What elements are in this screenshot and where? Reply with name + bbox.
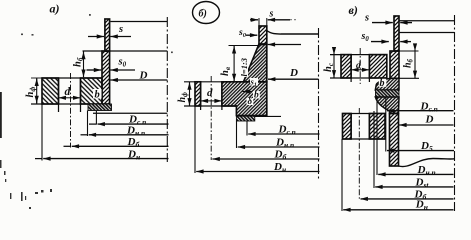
dimension D_5 (fig в)	[387, 150, 454, 152]
loose flange ring lower right part (fig в)	[369, 114, 385, 140]
dimension D_н.п (fig б)	[238, 146, 320, 148]
dimension h_с vertical (fig в)	[333, 55, 335, 78]
tapered hub cone (fig б)	[244, 44, 267, 82]
sealing face edge line (fig б)	[255, 115, 281, 117]
gasket sealing face serrated (fig б)	[236, 116, 254, 121]
dimension D_н (fig в)	[343, 209, 453, 211]
pipe wall thick section (fig в)	[390, 51, 399, 78]
dimension D_с.п (fig б)	[248, 133, 319, 135]
bolt hole d dimension line (fig в)	[351, 69, 354, 71]
bolt hole d dimension line (fig б)	[201, 100, 203, 102]
upper ring top edge (fig в)	[330, 54, 387, 56]
loose flange ring lower left part (fig в)	[343, 114, 352, 140]
svg-text:b: b	[254, 91, 259, 101]
pipe wall upper thin section s (fig a)	[105, 19, 110, 51]
dimension h_ф vertical (fig a)	[36, 78, 38, 103]
dimension D_б (fig в)	[361, 198, 454, 200]
svg-text:d: d	[207, 87, 213, 99]
extension line gasket outer (fig в)	[376, 97, 378, 175]
svg-text:b: b	[95, 90, 100, 101]
axis centerline (fig в)	[454, 15, 456, 211]
dimension D_н.п (fig в)	[378, 173, 453, 175]
svg-text:D: D	[289, 67, 298, 79]
dimension h_в vertical (fig б)	[233, 46, 235, 82]
gasket serrated (fig в)	[376, 90, 400, 97]
flange ring top edge (fig a)	[42, 77, 101, 79]
pipe step line at hub top (fig a)	[83, 50, 168, 52]
dimension D (fig в)	[399, 124, 453, 126]
stray dots near fig a	[21, 14, 173, 53]
svg-text:б): б)	[199, 9, 207, 20]
dimension D_н (fig a)	[43, 158, 168, 160]
gasket sealing face serrated (fig a)	[88, 104, 112, 111]
pipe top line (fig в)	[399, 20, 455, 22]
flange ring top edge (fig б)	[184, 81, 244, 83]
bolt hole diameter d dimension line (fig a)	[59, 97, 62, 99]
bolt hole centerline (fig б)	[210, 76, 212, 160]
svg-text:s: s	[118, 24, 123, 35]
hub thickness s1 label with leader (fig б)	[250, 78, 258, 86]
pipe secondary line (fig в)	[399, 32, 455, 34]
dimension s (fig a)	[88, 36, 104, 38]
upper pipe flare (fig в)	[375, 78, 399, 90]
gasket width b label (fig a)	[93, 89, 102, 99]
scan speckles bottom left	[0, 160, 52, 209]
flange ring right part and hub base (fig б)	[222, 82, 267, 116]
lower ring top edge (fig в)	[343, 113, 386, 115]
dimension h_б vertical (fig в)	[414, 51, 416, 78]
taper ratio label i=1:3 (fig б)	[240, 51, 249, 77]
svg-text:s: s	[364, 12, 369, 23]
lower pipe wall (fig в)	[390, 114, 399, 167]
axis centerline (fig б)	[318, 28, 320, 180]
bolt hole centerline lower (fig в)	[358, 108, 360, 199]
dimension D_с.п (fig в)	[387, 110, 454, 112]
pipe wall (fig б)	[259, 26, 267, 45]
lower pipe flare (fig в)	[375, 97, 399, 114]
dimension h_б vertical (fig a)	[83, 52, 85, 78]
axis centerline (fig a)	[166, 17, 168, 162]
pipe top break line (fig a)	[111, 21, 168, 23]
dimension D_б (fig a)	[72, 145, 169, 147]
extension line gasket mean (fig б)	[246, 121, 248, 136]
svg-text:а): а)	[50, 2, 60, 16]
scan artifact left edge	[0, 92, 2, 138]
dimension D_st (fig в)	[375, 186, 453, 188]
dimension D_н.п (fig a)	[89, 134, 169, 136]
lower pipe break line wavy (fig в)	[399, 159, 455, 167]
dimension h_ф vertical (fig б)	[189, 82, 191, 106]
extension line gasket outer (fig a)	[87, 111, 89, 137]
dimension s (fig б)	[250, 19, 258, 21]
flange ring right part (fig a)	[81, 78, 103, 104]
bolt hole (fig a)	[58, 78, 60, 112]
extension line flange OD (fig a)	[41, 104, 43, 161]
dimension D_б (fig б)	[212, 158, 319, 160]
flange ring left part (fig a)	[42, 78, 59, 104]
flare width b label (fig в)	[379, 79, 387, 87]
extension line gasket mean (fig a)	[95, 111, 97, 125]
svg-text:s: s	[269, 9, 274, 20]
bolt hole centerline upper (fig в)	[359, 48, 361, 84]
svg-text:d: d	[65, 86, 71, 98]
lower ring bottom edge (fig в)	[343, 138, 386, 140]
figure label б) circled	[193, 2, 220, 24]
bolt hole upper ring (fig в)	[350, 55, 352, 82]
svg-text:b: b	[380, 78, 385, 89]
extension line gasket outer (fig б)	[236, 121, 238, 148]
bore diameter D dimension (fig a)	[111, 79, 168, 81]
svg-text:l=1:3: l=1:3	[239, 57, 249, 76]
extension line gasket mean / ring bore (fig в)	[385, 97, 387, 152]
loose flange ring upper left part (fig в)	[341, 55, 351, 78]
bolt hole centerline (fig a)	[70, 73, 72, 148]
extension line flange OD (fig б)	[194, 106, 196, 173]
bolt hole (fig б)	[200, 82, 202, 110]
flange ring bottom edge (fig a)	[31, 103, 88, 105]
gasket width b label (fig б)	[253, 91, 260, 99]
sealing face line extended (fig a)	[93, 112, 167, 114]
bore diameter D dimension (fig б)	[268, 78, 319, 80]
pipe wall thin section (fig в)	[394, 16, 399, 51]
dimension D_с.п (fig a)	[98, 123, 169, 125]
upper ring bottom edge (fig в)	[330, 77, 387, 79]
flange ring bottom edge (fig б)	[184, 105, 236, 107]
flare height h_б extension lines (fig в)	[390, 50, 419, 52]
extension line flare OD (fig в)	[373, 111, 375, 188]
dimension s0 (fig a)	[87, 69, 102, 71]
hub top extension line (fig б)	[229, 45, 260, 47]
gasket thickness δ label (fig б)	[247, 98, 254, 105]
flange ring left sliver (fig б)	[195, 82, 201, 106]
pipe wall thick section s0 through flange (fig a)	[102, 51, 110, 104]
loose flange ring upper right part (fig в)	[369, 55, 386, 78]
svg-text:D: D	[425, 113, 434, 125]
svg-text:D: D	[139, 70, 148, 82]
pipe wall extension edges (fig б)	[258, 18, 260, 27]
dimension D_н (fig б)	[196, 171, 319, 173]
svg-text:δ: δ	[248, 96, 253, 106]
svg-text:в): в)	[349, 3, 358, 17]
extension line ring OD lower (fig в)	[341, 139, 343, 211]
pipe top break line (fig б)	[267, 31, 319, 35]
bolt hole lower ring (fig в)	[350, 114, 352, 140]
